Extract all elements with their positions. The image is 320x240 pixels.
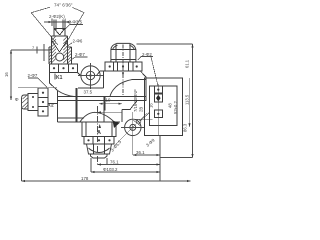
lower body block (82, 122, 116, 137)
casing step tick left (49, 46, 52, 48)
cap facet left (115, 44, 117, 62)
stem right wall (67, 36, 69, 64)
dim arrow left (49, 21, 53, 23)
casing step left (48, 47, 50, 64)
bolt circle dot (132, 126, 134, 128)
dim row1 arrows (133, 154, 160, 156)
bolt circle inner (130, 124, 136, 130)
dim 19 line (99, 103, 122, 105)
dim 7 ext tick b (43, 44, 45, 61)
tube tick (54, 28, 65, 30)
square 2 (154, 94, 162, 102)
svg-text:2-Φ3.5: 2-Φ3.5 (69, 20, 83, 25)
K2 dot3 (42, 110, 44, 112)
body right chamfer (122, 101, 137, 110)
leader to flange dot (138, 57, 153, 61)
dim row2 line (98, 164, 161, 166)
right dim arrow bottom (191, 154, 193, 158)
top flange divider 1b (117, 62, 119, 71)
square 3 (154, 110, 162, 118)
svg-text:37.5: 37.5 (84, 90, 93, 95)
svg-text:2B: 2B (139, 107, 144, 112)
tip (91, 154, 108, 158)
lower flange row (84, 137, 114, 145)
flange view outer rect (145, 78, 183, 135)
right dim2 arrow bottom (188, 123, 190, 127)
angle leader left (31, 7, 50, 13)
body left wall (57, 91, 59, 123)
bolt circle outer (125, 119, 141, 135)
leader 2-phi6 (66, 43, 72, 47)
dim line y22 (44, 21, 71, 23)
left fitting mid section (28, 94, 38, 111)
lower flange divider 2 (104, 137, 106, 145)
K2 flange (38, 88, 48, 116)
svg-text:16: 16 (4, 72, 9, 77)
left fitting nose (22, 95, 29, 109)
svg-text:76.1: 76.1 (110, 160, 119, 165)
lower block inner wall left (85, 122, 87, 137)
K2 flange divider1 (38, 97, 48, 99)
svg-text:48: 48 (168, 103, 173, 108)
K1 flange divider 2 (68, 64, 70, 73)
nozzle tube right inner wall (62, 20, 64, 31)
spray cone left line (31, 13, 58, 45)
svg-text:7/16-20UNF: 7/16-20UNF (133, 89, 138, 112)
svg-text:16: 16 (149, 103, 154, 108)
K1 bolt dot 3 (72, 67, 74, 69)
left dim arrow down (10, 97, 12, 101)
K1 bolt dot 1 (53, 67, 55, 69)
leader to flange view square (151, 57, 158, 86)
filled diamond (156, 95, 161, 102)
right dim arrow top (191, 44, 193, 48)
body shoulder left of K1 (50, 73, 58, 91)
dim 7 ext tick a (36, 47, 38, 54)
bottom dim line (22, 180, 191, 182)
svg-text:178: 178 (81, 176, 89, 181)
squares column centerline (157, 84, 159, 135)
stem upper shoulder (52, 35, 68, 37)
leader 2-phi7 (70, 57, 88, 61)
svg-text:52±0.2: 52±0.2 (173, 101, 178, 114)
right body top edge (100, 71, 146, 96)
right dim line (192, 44, 194, 158)
svg-text:36.1: 36.1 (136, 150, 145, 155)
top flange dot 2 (122, 65, 124, 67)
dim row3 arrows (91, 171, 160, 173)
right block shelf line (132, 79, 147, 81)
port circle inner (86, 71, 94, 79)
bolt circle vert centerline (132, 112, 134, 146)
bottom dim arrows (22, 180, 191, 182)
spray cone right line (66, 13, 85, 45)
svg-text:2-Φ7: 2-Φ7 (28, 73, 38, 78)
port boss wall b (104, 97, 106, 111)
svg-text:61.1: 61.1 (185, 59, 190, 68)
top flange dot 1 (109, 65, 111, 67)
flange view inner rect (150, 86, 177, 125)
svg-text:19: 19 (106, 98, 111, 103)
bolt circle horiz centerline (121, 126, 145, 128)
dim row3 line (91, 171, 160, 173)
circle top tangent ext line (133, 118, 153, 120)
nozzle tube left wall (53, 20, 55, 37)
dim arrow right (65, 21, 69, 23)
svg-text:Φ103.2: Φ103.2 (103, 167, 118, 172)
top flange divider 2b (132, 62, 134, 71)
stem hatch left band (49, 37, 56, 64)
dim row1 line (133, 154, 160, 156)
poppet diagonal left (52, 40, 60, 52)
block top-left chamfer (97, 71, 101, 75)
square 1 (154, 86, 162, 93)
mid section dot2 (32, 106, 34, 108)
port crosshair vertical (90, 63, 92, 89)
section A arrow (98, 124, 101, 128)
body inner wall a (75, 88, 77, 122)
dim ext line left (51, 19, 53, 27)
top ext line to right dim (137, 43, 193, 45)
left dim arrow up (10, 50, 12, 54)
leader 2-phi7 left (28, 78, 47, 88)
svg-text:K2: K2 (48, 103, 54, 109)
casing step tick right (68, 46, 72, 48)
lower flange dot 3 (108, 139, 110, 141)
cap inner dome arc (113, 45, 135, 49)
port circle center dot (89, 74, 91, 76)
lower flange divider 1 (92, 137, 94, 145)
ext vertical from circle center (132, 146, 134, 155)
svg-text:2-Φ2(K): 2-Φ2(K) (49, 14, 65, 19)
hex arcs (89, 148, 110, 153)
cap facet right (129, 44, 131, 62)
K1 flange divider 1 (58, 64, 60, 73)
nozzle tube right wall (64, 20, 66, 37)
bolt circle 45 line (114, 113, 147, 146)
bolt hole on 45 line (136, 119, 140, 123)
main parting line (58, 96, 147, 98)
body shoulder right of K1 (78, 73, 82, 77)
dim 19 arrows (99, 103, 122, 105)
K1 label tick (54, 74, 56, 80)
svg-text:86.3: 86.3 (183, 123, 188, 132)
dim ext line right (64, 19, 66, 27)
ext line left bottom (21, 107, 23, 181)
thread leader arrow (98, 111, 102, 113)
K2 flange divider2 (38, 106, 48, 108)
hex section (87, 144, 112, 154)
K1 bolt dot 2 (62, 67, 64, 69)
nose hatch (22, 96, 28, 109)
body step line left (58, 117, 85, 119)
ext line from tip left (90, 158, 92, 172)
angle leader right (73, 8, 85, 13)
dome arc (80, 112, 114, 122)
top flange dot 3 (136, 65, 138, 67)
centerline lower port (97, 106, 99, 165)
body right step (137, 97, 146, 101)
body inner wall c (103, 97, 105, 123)
dim row2 arrows (98, 163, 161, 165)
body bottom line (58, 121, 121, 123)
lower block inner wall right (111, 122, 113, 137)
right dim line 2 (189, 78, 191, 127)
svg-text:2-Φ7: 2-Φ7 (75, 52, 85, 57)
cap band line (111, 49, 136, 51)
neck top line (48, 103, 58, 105)
ext vertical right col (159, 136, 161, 182)
left vert dim line 16 (10, 50, 12, 100)
boss bottom line (78, 87, 103, 89)
square 1 dot (157, 89, 159, 91)
svg-text:Φ: Φ (15, 97, 19, 103)
mid section dots (32, 96, 34, 98)
nozzle tube left inner wall (55, 20, 57, 31)
ext line from tip right (106, 158, 108, 165)
top cap hex (111, 43, 136, 62)
K1 flange body (50, 64, 78, 73)
svg-text:113.5: 113.5 (185, 94, 190, 105)
stem left wall (51, 36, 53, 64)
leader 2-phi3.5 (65, 25, 83, 30)
cap base line (111, 59, 136, 61)
internal cone V left (54, 29, 59, 35)
internal cone V right (60, 29, 65, 35)
lower flange dot 2 (98, 139, 100, 141)
hex facet right (104, 144, 106, 154)
body inner wall b (76, 88, 78, 122)
thread leader line (98, 111, 123, 113)
top flange (105, 62, 142, 71)
dim 7 ticks on y50 line (11, 49, 52, 51)
K2 dot2 (42, 101, 44, 103)
svg-text:2-Φ6: 2-Φ6 (73, 39, 83, 44)
port circle outer (81, 66, 100, 85)
right body left wall (102, 71, 104, 88)
port crosshair horizontal (78, 75, 104, 77)
square 3 dot (157, 113, 159, 115)
leader from circle (140, 112, 150, 121)
bottom ext connector (160, 157, 193, 159)
poppet diagonal right (60, 40, 68, 52)
casing step right (70, 47, 72, 64)
fitting top ext line (18, 87, 57, 89)
body right inner wall (121, 110, 123, 122)
body line A (58, 100, 138, 102)
svg-text:74° 6'36": 74° 6'36" (54, 3, 73, 8)
body bowl arc (58, 91, 75, 97)
top flange divider 1 (113, 62, 115, 71)
filled triangle pointer (113, 121, 120, 129)
top centerline (122, 45, 124, 97)
hex facet left (93, 144, 95, 154)
svg-text:A: A (97, 130, 101, 136)
top center arrow (122, 73, 124, 77)
K2 dot1 (42, 92, 44, 94)
stem hatch right band (63, 36, 71, 63)
lower flange dot 1 (87, 139, 89, 141)
ball (56, 53, 64, 61)
svg-text:K1: K1 (56, 75, 63, 81)
right bowl arc (110, 80, 132, 97)
bolt hole leader (134, 120, 142, 126)
top flange divider 2 (128, 62, 130, 71)
